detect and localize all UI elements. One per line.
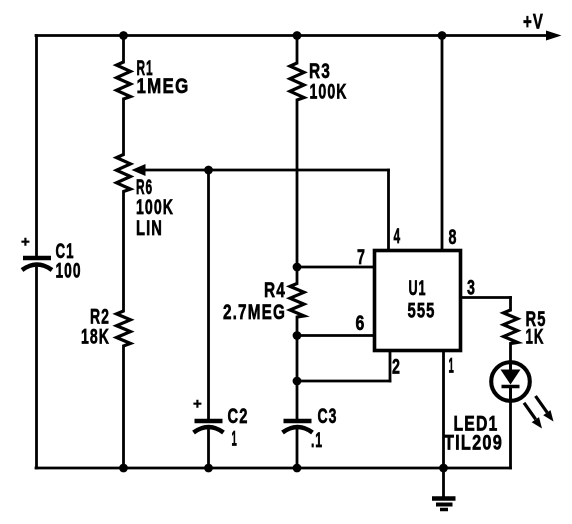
svg-text:6: 6 — [356, 311, 366, 335]
svg-text:+: + — [21, 234, 30, 251]
svg-text:2.7MEG: 2.7MEG — [223, 300, 286, 324]
svg-text:1: 1 — [449, 354, 455, 378]
svg-text:555: 555 — [408, 299, 436, 323]
svg-text:TIL209: TIL209 — [444, 431, 503, 455]
svg-text:7: 7 — [357, 245, 366, 269]
svg-text:1: 1 — [232, 427, 238, 451]
svg-text:C3: C3 — [318, 404, 338, 428]
svg-text:3: 3 — [467, 276, 476, 300]
svg-text:1MEG: 1MEG — [137, 74, 190, 98]
svg-text:100: 100 — [56, 259, 82, 283]
svg-text:R4: R4 — [264, 278, 286, 302]
svg-text:U1: U1 — [409, 276, 427, 300]
svg-text:18K: 18K — [81, 325, 110, 349]
svg-text:+: + — [193, 396, 202, 413]
svg-text:4: 4 — [394, 224, 402, 248]
svg-text:100K: 100K — [310, 80, 348, 104]
svg-text:8: 8 — [449, 225, 458, 249]
svg-text:+V: +V — [523, 10, 544, 34]
svg-text:.1: .1 — [311, 428, 323, 452]
svg-text:1K: 1K — [526, 325, 545, 349]
svg-text:LIN: LIN — [136, 216, 163, 240]
svg-text:2: 2 — [392, 355, 401, 379]
svg-text:C2: C2 — [228, 404, 249, 428]
